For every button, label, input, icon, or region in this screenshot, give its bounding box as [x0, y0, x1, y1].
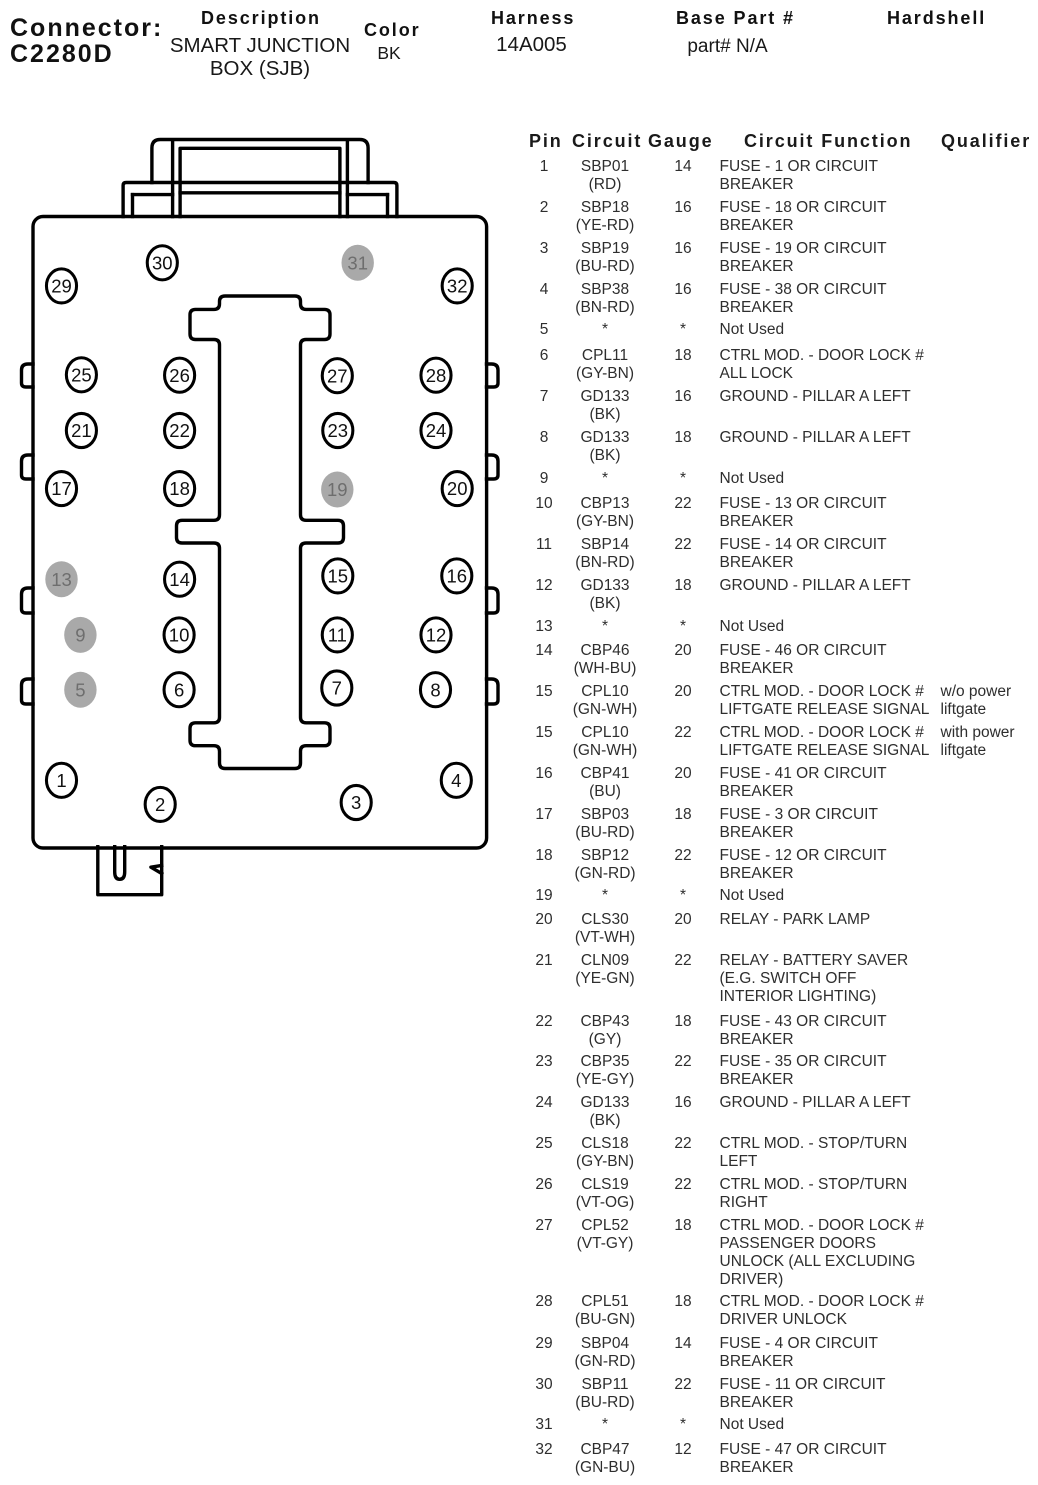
table row pin 18	[0, 846, 1038, 848]
connector body outline	[33, 217, 487, 849]
pin 20	[442, 472, 472, 506]
tab corner pocket left	[131, 195, 134, 217]
tab inner wall right	[346, 141, 349, 217]
tab inner rectangle	[180, 148, 340, 216]
pin 25	[66, 358, 96, 392]
svg-text:25: 25	[71, 364, 92, 385]
table header	[0, 0, 1038, 1]
svg-text:23: 23	[328, 420, 349, 441]
table row pin 9	[0, 469, 1038, 471]
connector drawing	[0, 0, 520, 910]
pin 7	[322, 671, 352, 705]
page header	[10, 14, 163, 43]
table row pin 17	[0, 805, 1038, 807]
svg-text:1: 1	[56, 770, 66, 791]
top wide tab	[123, 183, 397, 217]
table row pin 26	[0, 1175, 1038, 1177]
table row pin 1	[0, 157, 1038, 159]
table row pin 15	[0, 682, 1038, 684]
pin 11	[322, 618, 352, 652]
table row pin 25	[0, 1134, 1038, 1136]
tab inner wall left	[171, 141, 174, 217]
pin 18	[165, 472, 195, 506]
svg-text:12: 12	[426, 625, 447, 646]
svg-text:2: 2	[155, 794, 165, 815]
svg-text:27: 27	[327, 365, 348, 386]
right side bump 2	[487, 455, 499, 479]
svg-text:17: 17	[51, 478, 72, 499]
table row pin 4	[0, 280, 1038, 282]
bottom tab keyway slot	[115, 847, 125, 880]
svg-text:22: 22	[169, 420, 190, 441]
pin 31 (not used, gray)	[342, 245, 374, 281]
svg-text:20: 20	[447, 478, 468, 499]
table row pin 11	[0, 535, 1038, 537]
svg-text:9: 9	[75, 625, 85, 646]
table row pin 8	[0, 428, 1038, 430]
svg-text:24: 24	[426, 420, 447, 441]
table row pin 6	[0, 346, 1038, 348]
table row pin 2	[0, 198, 1038, 200]
pin 8	[420, 673, 450, 707]
table row pin 32	[0, 1440, 1038, 1442]
svg-text:6: 6	[174, 679, 184, 700]
svg-text:16: 16	[447, 566, 468, 587]
table row pin 29	[0, 1334, 1038, 1336]
svg-text:19: 19	[327, 479, 348, 500]
table row pin 28	[0, 1292, 1038, 1294]
table row pin 30	[0, 1375, 1038, 1377]
pin 26	[165, 358, 195, 392]
pin 2	[145, 787, 175, 821]
right side bump 3	[487, 588, 499, 613]
table row pin 23	[0, 1052, 1038, 1054]
table row pin 22	[0, 1012, 1038, 1014]
pin 22	[165, 413, 195, 447]
table row pin 13	[0, 617, 1038, 619]
table row pin 3	[0, 239, 1038, 241]
pin 21	[66, 413, 96, 447]
svg-text:18: 18	[169, 478, 190, 499]
svg-text:5: 5	[75, 679, 85, 700]
table row pin 27	[0, 1216, 1038, 1218]
pin 3	[341, 785, 371, 819]
pin 9 (not used, gray)	[64, 617, 96, 653]
svg-text:29: 29	[51, 276, 72, 297]
left side bump 3	[22, 588, 34, 613]
table row pin 7	[0, 387, 1038, 389]
pin 17	[46, 472, 76, 506]
table row pin 21	[0, 951, 1038, 953]
table row pin 24	[0, 1093, 1038, 1095]
pin 13 (not used, gray)	[45, 561, 77, 597]
table row pin 14	[0, 641, 1038, 643]
pin 19 (not used, gray)	[321, 472, 353, 508]
pin 24	[421, 413, 451, 447]
tab corner pocket right	[386, 195, 389, 217]
pin 1	[46, 763, 76, 797]
svg-text:28: 28	[426, 365, 447, 386]
left side bump 4	[22, 679, 34, 704]
svg-text:10: 10	[169, 625, 190, 646]
table row pin 19	[0, 886, 1038, 888]
svg-text:11: 11	[328, 625, 347, 646]
pin 30	[147, 246, 177, 280]
svg-text:15: 15	[328, 566, 349, 587]
top narrow tab	[152, 140, 368, 183]
pin 4	[441, 763, 471, 797]
pin 14	[165, 562, 195, 596]
svg-text:4: 4	[451, 770, 461, 791]
svg-text:8: 8	[430, 679, 440, 700]
pin 29	[46, 269, 76, 303]
svg-text:31: 31	[347, 252, 368, 273]
svg-text:21: 21	[71, 420, 92, 441]
center keyway (I-beam cutout)	[177, 296, 344, 769]
table row pin 10	[0, 494, 1038, 496]
svg-text:30: 30	[152, 252, 173, 273]
svg-text:32: 32	[447, 276, 468, 297]
table row pin 31	[0, 1415, 1038, 1417]
table row pin 15	[0, 723, 1038, 725]
pin 16	[442, 559, 472, 593]
pin 27	[322, 359, 352, 393]
svg-text:26: 26	[169, 365, 190, 386]
bottom tab	[98, 847, 162, 895]
svg-text:7: 7	[332, 678, 342, 699]
pin 28	[421, 358, 451, 392]
table row pin 16	[0, 764, 1038, 766]
table row pin 12	[0, 576, 1038, 578]
pin 15	[323, 559, 353, 593]
svg-text:13: 13	[51, 569, 72, 590]
pin 6	[164, 673, 194, 707]
pin 10	[164, 618, 194, 652]
pin 23	[323, 413, 353, 447]
pin 32	[442, 269, 472, 303]
svg-text:3: 3	[351, 792, 361, 813]
right side bump 4	[487, 679, 499, 704]
left side bump 1	[22, 364, 34, 387]
bottom tab notch	[151, 866, 162, 874]
table row pin 20	[0, 910, 1038, 912]
right side bump 1	[487, 364, 499, 387]
left side bump 2	[22, 455, 34, 479]
table row pin 5	[0, 320, 1038, 322]
pin 5 (not used, gray)	[64, 672, 96, 708]
pin 12	[421, 618, 451, 652]
tab inner band lines	[133, 193, 173, 196]
svg-text:14: 14	[169, 569, 190, 590]
